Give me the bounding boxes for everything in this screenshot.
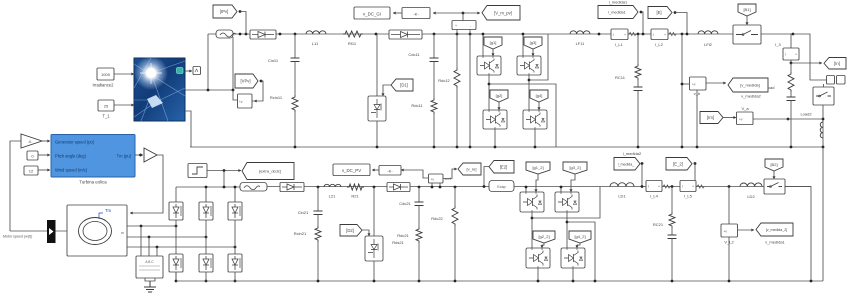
inductor LD1 [610,183,634,187]
diode D21 [280,183,304,192]
svg-text:LFl2: LFl2 [704,42,713,47]
breaker B1 [733,25,761,44]
inductor LF11 [570,31,590,34]
svg-text:i_medida_: i_medida_ [618,162,636,166]
constant Irradiance2 1000 [97,68,114,80]
svg-text:RC11: RC11 [615,75,626,80]
wire PV plus riser to ammeter [207,34,209,90]
wire step tap down [223,171,225,188]
from tag B2 [765,159,783,171]
svg-text:Cdc21: Cdc21 [399,201,411,206]
wire bridge leg1 lower [494,129,496,147]
wire boost2 lower [373,261,375,281]
snubber pins [140,226,142,256]
goto tag v_medida [706,82,726,84]
wire phase C [127,246,235,248]
svg-text:[g2_2]: [g2_2] [538,234,549,239]
svg-text:+v: +v [431,178,435,182]
wire step out [207,170,241,172]
svg-text:Irradiance2: Irradiance2 [93,83,115,88]
display v_DC_GI [393,12,402,14]
svg-text:12: 12 [29,169,34,174]
svg-text:L11: L11 [312,41,319,46]
svg-text:Rdc22: Rdc22 [431,216,443,221]
svg-text:+v: +v [239,100,243,104]
breaker B2 [764,179,785,194]
current sensor rect out [240,183,267,192]
wire turbine out [135,154,143,156]
node boost2 top [373,186,376,189]
branch RC11 [637,33,640,36]
IGBT Q1_1 [477,56,501,75]
diode D11 [250,30,276,39]
IGBT Q1_2 [520,192,544,212]
svg-text:[VPv]: [VPv] [240,79,250,84]
svg-text:1000: 1000 [101,72,111,77]
inductor LD2 [740,183,762,187]
wire gain to machine Tm [130,155,163,213]
wire bridge AC out lower [489,84,556,147]
node Cdc21 [418,186,421,189]
wire bottom return rail [176,280,823,282]
node boost switch top [375,33,378,36]
wire phase B [127,236,206,238]
ammeter I_PV [216,30,233,38]
inductor load branch [820,122,823,138]
svg-text:Pitch angle (deg): Pitch angle (deg) [55,154,87,159]
svg-text:T_1: T_1 [102,114,110,119]
svg-text:+v: +v [739,118,743,122]
branch V_L2 [728,185,731,188]
inductor LFl2 [698,31,718,34]
from tag B1 [738,4,756,16]
gate tag g2_1 [490,90,508,102]
svg-text:Ecap: Ecap [497,185,505,189]
svg-text:Turbina eolica: Turbina eolica [79,180,107,185]
node grid out [792,33,795,36]
svg-text:[E_2]: [E_2] [673,161,683,166]
svg-text:Rcin11: Rcin11 [270,95,283,100]
node v_DC out [462,13,464,21]
IGBT Q3_2 [555,192,579,212]
svg-text:I_3: I_3 [775,42,781,47]
wire measurement return [469,34,471,147]
PMSG machine block [67,205,127,256]
gate tag g1_1 [484,37,502,49]
wire bridge leg2 lower [534,129,536,147]
voltage measure vre [429,174,444,183]
svg-text:[B2]: [B2] [770,162,777,167]
svg-text:[g3_2]: [g3_2] [569,165,580,170]
snubber RC block [136,256,163,278]
svg-text:[IPv]: [IPv] [220,9,228,14]
node Cin21 [317,186,320,189]
from tag D2 gate [340,225,362,237]
svg-text:[B1]: [B1] [743,7,750,12]
svg-text:-K-: -K- [413,12,419,17]
gain feedback -K- [21,134,42,148]
diode D22 [387,183,410,192]
svg-text:I_L1: I_L1 [615,42,624,47]
svg-text:Rcin21: Rcin21 [294,231,307,236]
svg-text:Rds21: Rds21 [392,240,404,245]
PV m-output box [185,70,192,72]
diode Dr2 bottom [199,254,213,272]
resistor Rdc21 [418,206,420,228]
voltage measurement VPv block [238,94,253,108]
wire bottom out [785,187,811,282]
display v_DC_PV [372,169,379,171]
inductor L11 [306,31,326,34]
goto tag V_m_pv [463,12,480,14]
node V_a join [822,118,825,121]
IGBT Q4_2 [561,248,585,268]
gate tag g3_2 [563,162,587,174]
diode Dr3 bottom [228,254,242,272]
wire PV minus down to rail [185,111,191,147]
constant 0 [27,151,38,160]
svg-text:[g3]: [g3] [530,40,537,45]
wire rectifier leg2 lower [205,272,207,281]
diode Dr1 top [169,202,183,220]
wire inv2 leg1 upper [525,187,527,192]
wire switch branch lower [376,121,378,147]
voltage measure V_L2 [721,224,738,237]
svg-text:v_DC_PV: v_DC_PV [342,168,361,173]
goto tag v_medida_2 [738,229,755,231]
svg-text:[E2]: [E2] [500,164,507,169]
from tag D1 gate [391,79,413,91]
IGBT Q2_1 [483,110,507,129]
current measure I_L5 [680,181,696,192]
svg-text:V_a: V_a [741,106,749,111]
svg-text:[g4]: [g4] [536,93,543,98]
scope block pair [827,76,835,85]
svg-text:[In]: [In] [834,61,840,66]
wire rectifier top bus [176,186,241,188]
resistor Rdc11 [433,62,435,99]
wire rectifier leg2 upper [205,187,207,202]
wire inv2 AC lower [567,222,595,281]
svg-text:[D2]: [D2] [346,228,354,233]
svg-text:Cin21: Cin21 [298,210,309,215]
wire top circuit bottom rail y147 [190,146,823,148]
gate tag g1_2 [526,162,550,174]
capacitor Cin21 [317,187,319,211]
svg-text:[V_m_pv]: [V_m_pv] [494,10,512,15]
goto tag extra_dcdc [242,163,294,180]
step block [188,164,207,178]
node Cdc11 top [433,33,436,36]
node Rdc12 top [456,33,459,36]
wire inv2 leg2 upper [560,187,562,192]
svg-text:[g1]: [g1] [490,40,497,45]
machine speed output wire [10,230,67,232]
gain K2 [401,170,429,178]
IGBT Q2_2 [526,248,550,268]
current measure I_3 [790,34,792,48]
svg-text:[D1]: [D1] [400,83,408,88]
svg-text:[g1_2]: [g1_2] [532,165,543,170]
svg-text:Tm (pu): Tm (pu) [117,154,132,159]
resistor R21 [347,184,364,190]
gain K1 [433,12,463,14]
wire V_a to load [753,118,823,120]
svg-text:Load2: Load2 [800,112,812,117]
wire rectifier bottom bus [175,272,177,281]
node after ammeter [239,33,242,36]
diode D12 [389,30,422,39]
node Cin11 top [279,33,282,36]
wire boost2 branch [373,187,375,236]
wire feedback to gain [10,141,21,231]
svg-text:v_medida2: v_medida2 [741,94,761,99]
wire inv2 leg1 mid [531,212,533,248]
svg-text:[v_medida]: [v_medida] [740,83,760,88]
goto tag E [648,7,672,19]
goto tag E2 [489,161,514,174]
svg-text:i_medida1: i_medida1 [609,0,628,5]
svg-text:Cin11: Cin11 [268,58,279,63]
svg-text:LD2: LD2 [747,194,755,199]
svg-text:A B C: A B C [145,260,154,264]
wire temperature to PV [114,104,134,106]
svg-text:I_L4: I_L4 [650,194,659,199]
wire phase A [127,225,176,227]
goto tag VPv [235,74,258,88]
wind turbine block Turbina eolica [51,135,135,178]
MOSFET switch Sw2 [365,236,383,261]
IGBT Q4_1 [523,110,547,129]
wire rectifier leg3 mid [234,220,236,254]
wire rectifier leg3 upper [234,187,236,202]
display motor speed bar [47,220,56,243]
wire irradiance to PV [114,73,134,75]
capacitor Cdc11 [433,34,435,58]
svg-text:+v: +v [692,83,696,87]
svg-text:Cdc11: Cdc11 [408,52,420,57]
goto tag E_2 [666,158,692,171]
constant 12 [24,166,38,175]
branch RC21 [671,185,674,188]
current measure I_L2 [651,29,668,40]
wire PV plus output [185,89,233,91]
svg-text:[g4_2]: [g4_2] [574,234,585,239]
gate tag g2_2 [533,231,555,243]
diode Dr2 top [199,202,213,220]
svg-text:R21: R21 [351,194,359,199]
svg-text:Rdc21: Rdc21 [397,233,409,238]
svg-text:Tm: Tm [105,208,112,213]
wire switch branch upper [376,34,378,96]
wire to measurement column [793,34,827,80]
inductor L21 [324,184,341,187]
svg-text:+: + [624,33,626,37]
svg-text:Rf11: Rf11 [348,41,357,46]
svg-text:Motor speed (w(t)): Motor speed (w(t)) [3,235,32,239]
svg-text:v_medida1: v_medida1 [765,240,785,245]
svg-text:[g2]: [g2] [496,93,503,98]
wire bridge leg2 mid [528,75,530,110]
resistor Rcin11 [292,95,298,112]
svg-text:+: + [664,33,666,37]
wire rectifier leg1 lower [175,272,177,281]
IGBT Q3_1 [517,56,541,75]
wire bottom DC rail [241,186,811,188]
gate tag g3_1 [524,37,542,49]
wire inv2 leg2 mid [566,212,568,248]
resistor Rdc22 branch [454,186,457,189]
svg-text:v_DC_GI: v_DC_GI [363,12,381,17]
voltage measurement v_DC [452,21,476,30]
svg-text:LF11: LF11 [576,41,586,46]
wire VPv block to PV wire [233,90,238,100]
breaker B3 [813,87,834,105]
voltage measure v_b [690,77,707,90]
diode Dr3 top [228,202,242,220]
wire top DC rail y34 [208,33,793,35]
svg-text:L21: L21 [329,194,336,199]
resistor Rdc12 [456,34,458,68]
svg-text:+: + [455,24,457,28]
goto tag In [790,60,792,63]
wire mid return [681,33,684,36]
svg-text:+: + [692,185,694,189]
svg-text:m: m [121,231,124,235]
goto tag v_re [443,169,457,179]
goto tag IPV [213,5,237,18]
svg-text:Generator speed (pu): Generator speed (pu) [55,140,95,145]
node before I_L1 [598,33,601,36]
gate tag g4_1 [530,90,548,102]
svg-text:[Im]: [Im] [707,115,714,120]
gate tag g4_2 [569,231,591,243]
node PV plus [207,89,210,92]
load resistor [790,63,792,72]
wire bridge AC out upper [529,34,548,80]
wire inv2 leg1 lower [537,268,539,281]
wire inv2 AC upper [532,187,600,219]
svg-text:vre1: vre1 [445,177,452,181]
wire bridge leg1 upper [482,34,484,56]
svg-text:i_medida2: i_medida2 [623,151,642,156]
svg-text:+: + [658,185,660,189]
wire bridge leg2 upper [522,34,524,56]
svg-text:+: + [795,53,797,57]
wire rectifier leg3 lower [234,272,236,281]
current measure I_L4 [646,181,662,192]
ground [145,278,155,281]
svg-text:I_L5: I_L5 [684,194,693,199]
wire breaker B3 down [822,105,824,147]
wire bridge leg1 mid [488,75,490,110]
svg-text:[E]: [E] [656,10,661,15]
svg-text:25: 25 [104,104,109,109]
wire rectifier leg2 mid [205,220,207,254]
gain torque [144,148,157,162]
current measure I_L1 [611,29,628,40]
battery Ecap [489,181,514,192]
load capacitor [790,92,792,97]
svg-text:Wind speed (m/s): Wind speed (m/s) [55,168,88,173]
svg-text:-K-: -K- [28,140,33,144]
svg-text:[extra_dcdc]: [extra_dcdc] [259,169,281,174]
svg-text:RC21: RC21 [653,222,664,227]
svg-text:[v_medida_2]: [v_medida_2] [766,228,788,232]
svg-text:i_medida1: i_medida1 [608,11,626,15]
svg-text:[v_re]: [v_re] [466,167,476,172]
diode Dr1 bottom [169,254,183,272]
MOSFET switch Sw1 [368,96,386,121]
svg-text:Rdc11: Rdc11 [411,103,423,108]
svg-text:Rdc12: Rdc12 [438,78,450,83]
from tag Im [700,112,723,124]
resistor Rf11 [343,31,363,37]
svg-text:-K-: -K- [387,169,393,174]
wire rectifier leg1 upper [175,187,177,202]
resistor Rcin21 [317,215,319,227]
capacitor Cin11 [294,34,296,58]
wire inv2 leg2 lower [572,268,574,281]
svg-text:I_L2: I_L2 [655,42,664,47]
wire right return riser [822,147,824,281]
wire rectifier leg1 mid [175,220,177,254]
svg-text:+v: +v [724,230,728,234]
constant T_1 25 [98,100,114,111]
wire VPv tap riser [232,37,234,90]
svg-text:LD1: LD1 [618,194,626,199]
capacitor Cdc21 [418,187,420,202]
wire gain to turbine [42,140,50,142]
